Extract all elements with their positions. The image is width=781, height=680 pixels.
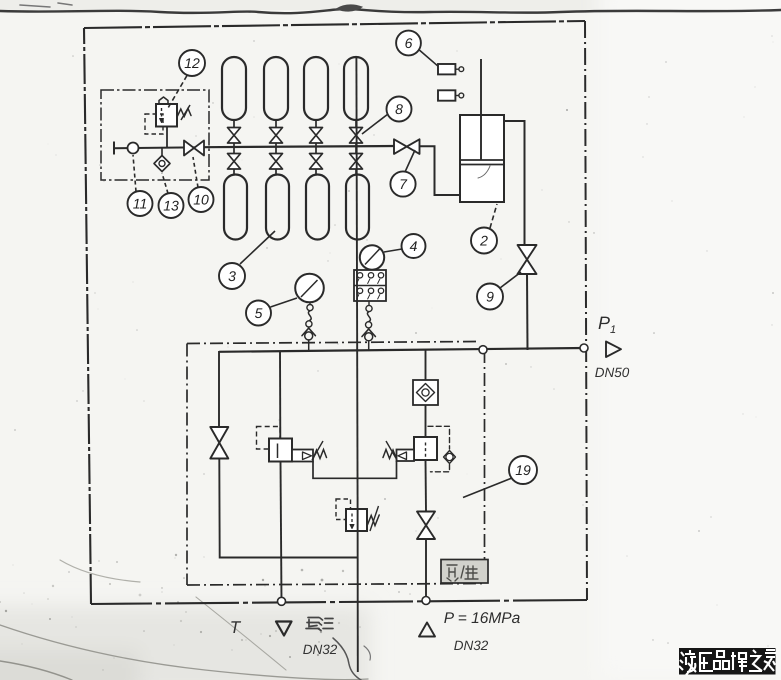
drain wire V1 (313, 462, 357, 479)
wire (315, 169, 317, 175)
isolation valve top column 2 (270, 128, 283, 144)
P1 triangle (606, 342, 621, 358)
wire (219, 459, 357, 558)
shutoff valve 7 (394, 139, 420, 154)
gauge 5 cock (302, 328, 315, 350)
reducing valve 12 (145, 97, 191, 148)
isolation valve bottom column 4 (350, 154, 363, 170)
svg-text:P = 16MPa: P = 16MPa (444, 610, 521, 627)
solenoid (V1) (292, 450, 313, 462)
svg-text:19: 19 (515, 462, 531, 478)
balloon label 13 (159, 173, 184, 218)
main centre line (356, 58, 357, 509)
balloon label 4 (384, 234, 426, 258)
accumulator A1 bottom (224, 175, 247, 240)
balloon label 12 (168, 50, 205, 108)
wire below V1 (281, 462, 282, 602)
balloon label 3 (219, 231, 275, 289)
gauge isolator block (354, 270, 386, 301)
cartridge valve V2 (414, 437, 437, 460)
svg-text:6: 6 (405, 35, 413, 51)
balloon label 6 (396, 31, 438, 66)
weighted cylinder 2 (460, 59, 504, 202)
wire below V2 (425, 460, 428, 512)
wire (233, 169, 235, 175)
balloon label 11 (128, 155, 153, 216)
svg-text:T: T (230, 618, 242, 637)
cartridge valve V1 (269, 439, 292, 462)
pump port tick (113, 142, 115, 155)
P1 manifold line (219, 348, 584, 352)
pressure switch 6a (438, 64, 464, 74)
svg-text:DN50: DN50 (595, 365, 630, 380)
station enclosure 19 (187, 342, 485, 586)
pressure switch 6b (438, 90, 464, 100)
accumulator A3 bottom (306, 175, 329, 240)
isolation valve top column 4 (350, 128, 363, 144)
supply line from pump (113, 147, 204, 148)
svg-text:3: 3 (228, 268, 236, 284)
wire (275, 169, 277, 175)
P1 label (598, 313, 616, 336)
pilot lines dashed (right valve) (428, 426, 450, 472)
watermark 液压品牌之家 (679, 648, 776, 675)
wire (315, 120, 317, 128)
wire (425, 405, 427, 437)
pilot check (right valve) (444, 451, 456, 464)
wire (275, 143, 277, 154)
node P1-right (580, 344, 588, 352)
pencil smudge arcs bottom left (0, 625, 368, 680)
pilot box dashed (left valve) (257, 427, 281, 450)
pilot box dashed (relief valve) (336, 499, 351, 520)
balloon label 7 (390, 150, 415, 197)
accumulator A3 top (304, 57, 328, 120)
svg-text:5: 5 (255, 305, 263, 321)
accumulator A4 top (344, 57, 368, 120)
spring (V2) (383, 441, 397, 460)
balloon label 10 (189, 157, 214, 212)
wire to node (425, 539, 427, 600)
wire (355, 120, 357, 128)
pump unit enclosure (101, 90, 209, 180)
svg-text:4: 4 (410, 238, 418, 254)
balloon label 5 (246, 298, 297, 326)
svg-text:11: 11 (133, 196, 148, 212)
wire cylinder to valve 9 (504, 121, 525, 245)
svg-text:2: 2 (479, 233, 488, 249)
shutoff valve 9 (518, 245, 537, 274)
shutoff valve branch 3 (417, 512, 435, 540)
svg-text:DN32: DN32 (303, 642, 338, 657)
spring (V1) (312, 441, 327, 460)
T port triangle (276, 622, 292, 636)
relief valve V3 (346, 509, 367, 531)
balloon label 8 (362, 97, 412, 135)
wire (233, 120, 235, 128)
spring (V3) (367, 506, 379, 531)
gauge 4 cock (362, 329, 375, 350)
solenoid (V2) (397, 450, 415, 462)
isolation valve top column 1 (228, 128, 241, 144)
gauge 4 snubber coil (366, 301, 373, 328)
balloon label 9 (477, 272, 521, 310)
P port triangle (419, 623, 435, 637)
drain wire V2 (357, 461, 396, 478)
shutoff valve left branch (210, 427, 228, 459)
wire (233, 143, 235, 154)
isolation valve top column 3 (310, 128, 323, 144)
node enclosure corner (479, 346, 487, 354)
node P line (422, 597, 430, 605)
wire branch 2 (279, 351, 281, 439)
balloon label 2 (471, 204, 497, 254)
accumulator A2 top (264, 57, 288, 120)
wire branch 3 (425, 350, 427, 381)
wire valve 9 to P1 line (526, 274, 529, 350)
wire (275, 120, 277, 128)
gauge 5 snubber coil (306, 302, 313, 327)
svg-text:13: 13 (163, 198, 179, 214)
accumulator header line (204, 146, 394, 147)
check valve 13 (154, 148, 170, 172)
accumulator A1 top (222, 57, 246, 120)
gauge point 11 (128, 143, 139, 154)
svg-text:P: P (598, 313, 610, 333)
wire (355, 169, 357, 175)
pilot check block (413, 380, 438, 405)
svg-text:8: 8 (395, 101, 403, 117)
svg-text:9: 9 (486, 289, 494, 305)
svg-text:7: 7 (399, 176, 408, 192)
pump unit tag box (441, 560, 488, 584)
torn page top edge (0, 9, 781, 13)
wire to cylinder (420, 146, 461, 195)
pressure gauge 4 (360, 245, 384, 269)
accumulator A2 bottom (266, 175, 289, 240)
isolation valve bottom column 1 (228, 154, 241, 170)
svg-text:1: 1 (610, 324, 616, 336)
return oil chars (306, 618, 333, 631)
svg-text:12: 12 (184, 55, 200, 71)
node T line (278, 597, 286, 605)
isolation valve bottom column 3 (310, 154, 323, 170)
shutoff valve 10 (184, 141, 204, 156)
balloon label 19 (463, 456, 537, 498)
pressure gauge 5 (295, 274, 324, 303)
outer frame border (84, 21, 587, 604)
isolation valve bottom column 2 (270, 154, 283, 170)
svg-text:DN32: DN32 (454, 638, 489, 653)
wire left branch (218, 351, 220, 427)
wire (315, 143, 317, 154)
accumulator A4 bottom (346, 175, 369, 240)
svg-text:10: 10 (193, 192, 209, 208)
wire (355, 143, 357, 154)
